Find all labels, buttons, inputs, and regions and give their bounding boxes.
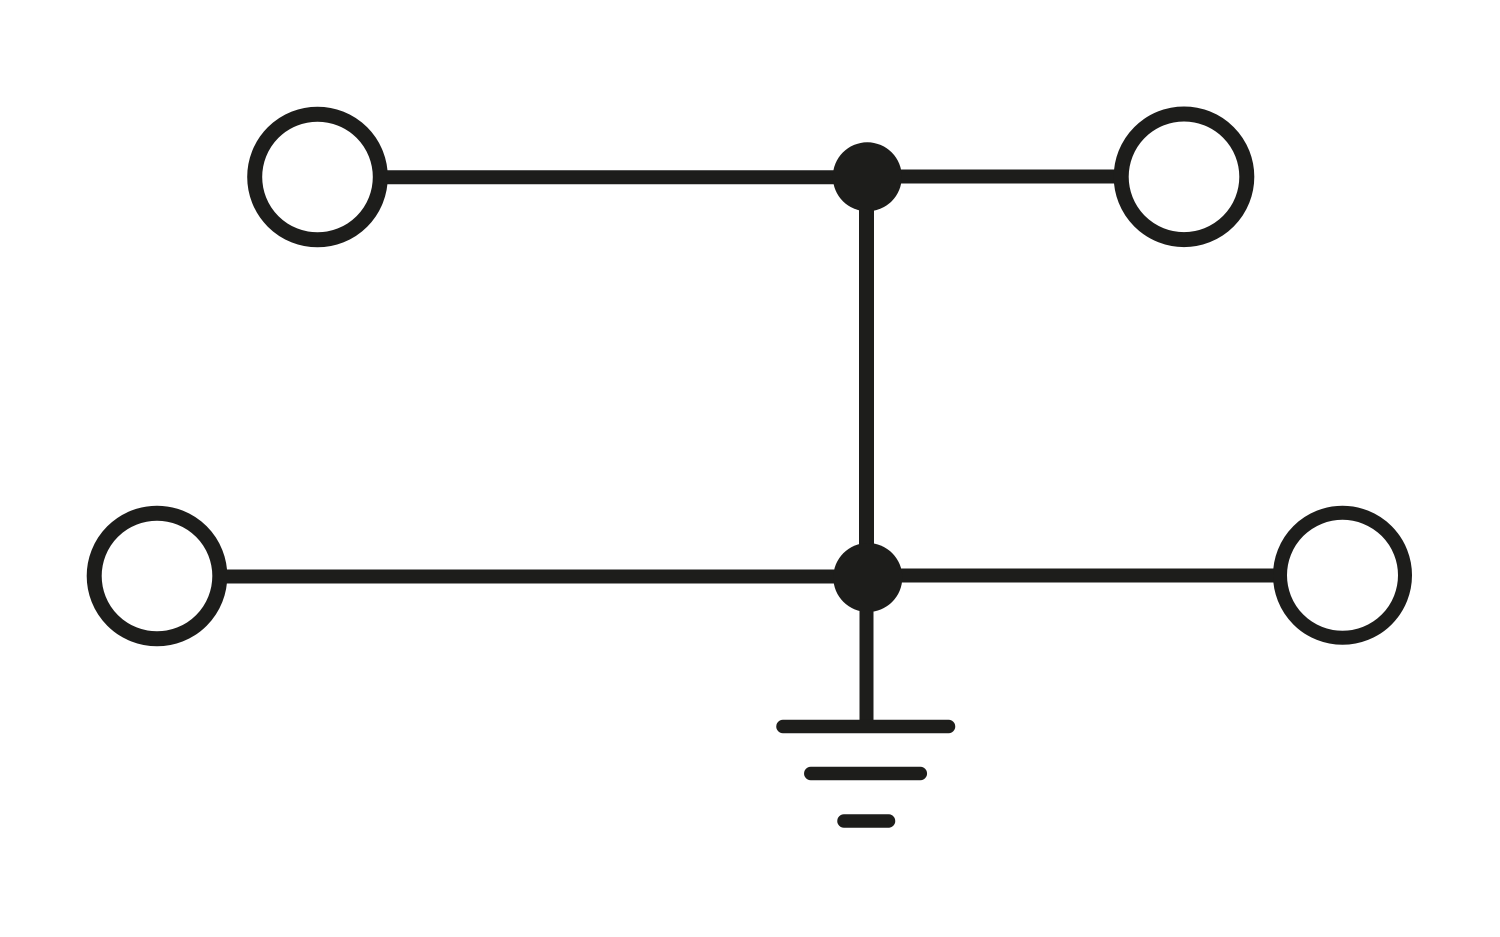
wire top-right (top junction to terminal 2): [867, 170, 1116, 184]
node: top junction: [833, 142, 902, 211]
wire vertical bridge (top junction to bottom junction): [859, 177, 874, 577]
ground bar 3 (short): [844, 814, 889, 828]
ground bar 2 (middle): [811, 767, 921, 781]
wire ground stem (bottom junction to ground bar): [860, 577, 874, 727]
wire top-left (terminal 1 to top junction): [386, 170, 867, 184]
terminal circle 2 (top right): [1121, 114, 1247, 240]
terminal circle 1 (top left): [255, 114, 381, 240]
node: bottom junction: [833, 543, 902, 612]
wire bottom-right (bottom junction to terminal 4): [868, 569, 1275, 583]
ground: [783, 727, 949, 822]
terminal circle 4 (bottom right): [1280, 513, 1405, 638]
wire bottom-left (terminal 3 to bottom junction): [226, 570, 868, 584]
ground bar 1 (long): [783, 720, 949, 734]
terminal circle 3 (bottom left): [94, 513, 220, 639]
